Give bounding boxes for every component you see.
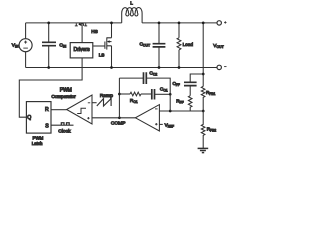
inductor L bbox=[122, 8, 142, 23]
node FB-RFF junction bbox=[169, 110, 172, 113]
wire comparator to R bbox=[51, 109, 67, 111]
wire S clock bbox=[51, 124, 74, 126]
node LS source ground bbox=[110, 66, 113, 69]
wire ramp stub bbox=[92, 102, 97, 104]
wire compensation right vertical bbox=[169, 94, 171, 111]
wire top rail right (inductor to + terminal) bbox=[142, 22, 217, 24]
wire CC1 to right vertical bbox=[155, 93, 171, 95]
svg-text:R: R bbox=[45, 107, 49, 113]
symbol clock pulses bbox=[61, 123, 69, 125]
symbol ramp sawtooth bbox=[97, 99, 111, 106]
svg-text:PWM: PWM bbox=[60, 88, 72, 94]
node COUT bottom bbox=[158, 66, 161, 69]
svg-text:Ramp: Ramp bbox=[100, 93, 113, 99]
transistor LS bbox=[93, 23, 111, 68]
wire CFF to RFF bbox=[189, 86, 191, 96]
wire ground rail bbox=[26, 67, 217, 69]
terminal VOUT- bbox=[217, 65, 221, 69]
wire top rail left (VIN to inductor) bbox=[26, 22, 122, 24]
capacitor CC2 bbox=[144, 72, 147, 84]
node CC1 right junction bbox=[169, 93, 172, 96]
terminal VOUT+ bbox=[217, 21, 221, 25]
svg-text:LS: LS bbox=[99, 52, 105, 57]
wire compensation left vertical bbox=[118, 78, 120, 118]
svg-text:Drivers: Drivers bbox=[74, 47, 91, 53]
label plus bbox=[224, 21, 226, 23]
node FF tap bbox=[202, 73, 205, 76]
wire HS gate to Drivers bbox=[81, 25, 83, 43]
wire CC2 branch left bbox=[119, 77, 143, 79]
source VIN bbox=[19, 23, 32, 68]
block PWM latch bbox=[26, 102, 51, 134]
wire RC1 branch left bbox=[119, 93, 130, 95]
resistor RC1 bbox=[130, 92, 141, 96]
op-amp error amplifier bbox=[135, 105, 159, 131]
capacitor CC1 bbox=[152, 89, 155, 100]
capacitor CFF bbox=[184, 82, 197, 85]
transistor HS bbox=[75, 23, 87, 26]
wire VREF stub bbox=[159, 123, 162, 125]
block Drivers bbox=[70, 43, 93, 58]
wire feedback tap vertical bbox=[202, 23, 204, 87]
svg-text:L: L bbox=[130, 1, 133, 6]
resistor RFB2 bbox=[201, 111, 205, 148]
resistor RFB1 bbox=[201, 86, 205, 111]
capacitor CIN bbox=[42, 23, 56, 68]
node COMP bbox=[118, 116, 121, 119]
wire RC1 to CC1 bbox=[141, 93, 152, 95]
node CIN top bbox=[47, 22, 50, 25]
ground bbox=[198, 148, 209, 152]
svg-text:Load: Load bbox=[183, 42, 194, 47]
wire FB node bbox=[159, 110, 203, 112]
svg-text:S: S bbox=[45, 124, 49, 130]
svg-text:COMP: COMP bbox=[111, 121, 126, 127]
svg-text:HS: HS bbox=[91, 29, 98, 34]
wire CC2 branch right bbox=[146, 78, 170, 94]
node Load bottom bbox=[178, 66, 181, 69]
resistor Load bbox=[177, 23, 181, 68]
node FB bbox=[202, 110, 205, 113]
svg-text:Comparator: Comparator bbox=[51, 94, 76, 100]
node FB tap top bbox=[202, 22, 205, 25]
node RC1 branch left bbox=[118, 93, 121, 96]
node Load top bbox=[178, 22, 181, 25]
svg-text:Latch: Latch bbox=[32, 141, 43, 146]
capacitor COUT bbox=[153, 23, 166, 68]
node CIN bottom bbox=[47, 66, 50, 69]
wire latch Q to drivers bbox=[19, 58, 82, 117]
svg-text:Q: Q bbox=[27, 115, 31, 121]
node COUT top bbox=[158, 22, 161, 25]
wire FF branch top bbox=[190, 74, 203, 82]
resistor RFF bbox=[188, 96, 192, 111]
label minus bbox=[224, 66, 226, 68]
comparator PWM bbox=[67, 95, 92, 124]
node switch bbox=[110, 22, 113, 25]
svg-text:Clock: Clock bbox=[58, 129, 71, 135]
wire COMP bbox=[92, 117, 135, 119]
